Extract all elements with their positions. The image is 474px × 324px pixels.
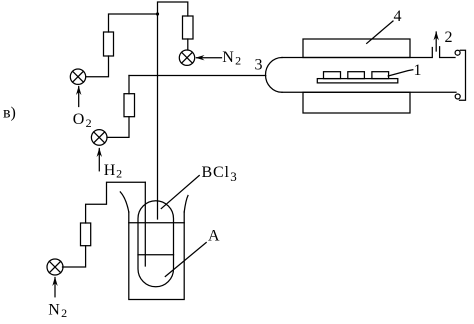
wire reactor tube top wall with outlet port gap [282, 47, 455, 58]
svg-text:A: A [208, 228, 220, 245]
node junction dot [156, 12, 159, 15]
water bath liquid level [129, 222, 184, 224]
label 3 [255, 57, 263, 74]
svg-text:3: 3 [255, 57, 263, 74]
label A [208, 228, 220, 245]
tube end cap bracket [460, 50, 466, 100]
arrow O2 inlet (points up into valve) [76, 86, 81, 107]
svg-text:4: 4 [394, 8, 402, 25]
label в) figure letter [3, 105, 16, 122]
wire horizontal line to furnace (net 3) [129, 75, 266, 77]
svg-text:O2: O2 [73, 111, 92, 130]
svg-text:N2: N2 [222, 49, 241, 68]
wire furnace-line-to-H2-rotameter [128, 76, 130, 94]
flow meter (rotameter) on O2 line [104, 32, 114, 56]
label O2 [73, 111, 92, 130]
arrow N2 bottom inlet (points up into valve) [52, 277, 57, 297]
wire rotameter-to-valve N2 top [187, 39, 189, 50]
wire junction-to-N2-rotameter top corner [158, 2, 188, 16]
heater block upper (furnace 4) [303, 39, 410, 58]
water bath left rim flare [120, 192, 129, 212]
svg-text:в): в) [3, 105, 16, 122]
substrate 1a [324, 72, 341, 79]
substrate 1b [348, 72, 365, 79]
wire reactor tube bottom wall [282, 91, 456, 93]
svg-text:H2: H2 [104, 162, 122, 181]
label 4 [394, 8, 402, 25]
valve on H2 line [91, 130, 107, 146]
bubbler dip tube [144, 182, 146, 266]
leader line for label BCl3 [161, 176, 199, 209]
label BCl3 [202, 164, 238, 184]
water bath vessel walls [129, 212, 184, 300]
flow meter (rotameter) on top N2 line [183, 16, 194, 39]
tube end curl top [455, 50, 460, 55]
bubbler flask (capsule test tube) [138, 201, 174, 287]
svg-text:2: 2 [445, 29, 453, 46]
flow meter (rotameter) on H2 line [124, 94, 135, 117]
flow meter (rotameter) on bottom N2 line [81, 223, 91, 246]
label H2 [104, 162, 122, 181]
substrate 1c [372, 72, 389, 79]
wire rotameter-to-valve H2 [107, 117, 129, 138]
wire rotameter-to-valve O2 [86, 56, 109, 77]
wire junction-to-O2-rotameter [109, 14, 158, 32]
heater block lower [303, 92, 410, 113]
valve on O2 line [70, 69, 85, 84]
svg-text:BCl3: BCl3 [202, 164, 238, 184]
label 2 [445, 29, 453, 46]
svg-text:N2: N2 [48, 302, 67, 321]
substrate holder plate [317, 79, 398, 83]
svg-text:1: 1 [414, 62, 422, 79]
wire N2-bottom to bubbler dip tube [86, 182, 146, 223]
label N2 top [222, 49, 241, 68]
leader line for label 1 [388, 70, 413, 76]
leader line for label 4 [367, 21, 393, 43]
wire rotameter-to-valve N2 bottom [63, 246, 86, 267]
label 1 [414, 62, 422, 79]
valve on bottom N2 line [47, 259, 63, 275]
valve on top N2 line [179, 50, 194, 65]
bubbler liquid level (BCl3) [138, 254, 174, 256]
arrow H2 inlet (points up into valve) [97, 148, 102, 171]
furnace reactor tube with rounded left end [266, 58, 283, 93]
tube end curl bottom [455, 94, 460, 99]
leader line for label A [165, 243, 206, 277]
arrow N2 inlet (points left into valve) [195, 55, 221, 60]
arrow gas outlet 2 (points up) [434, 31, 439, 51]
water bath right rim flare [184, 196, 188, 213]
label N2 bottom [48, 302, 67, 321]
wire main vertical line (mixing line down to bubbler outlet tube) [157, 14, 159, 219]
